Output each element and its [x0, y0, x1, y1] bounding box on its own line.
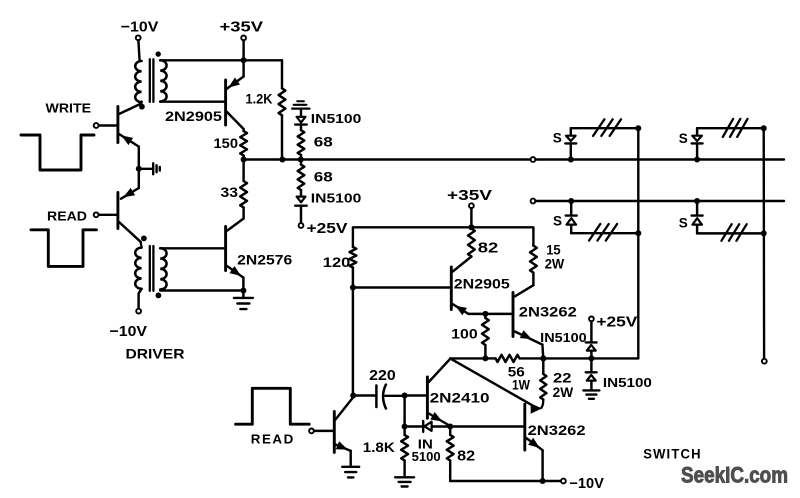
resistor 33 [242, 160, 244, 182]
node Q7 emitter on rail [540, 478, 546, 484]
wire Q7 emitter to -10V rail [541, 450, 543, 481]
transformer T2 polarity dot primary [141, 236, 147, 242]
core winding hash S4 [721, 224, 731, 241]
svg-text:READ: READ [251, 432, 295, 447]
node 120 bottom junction [350, 285, 356, 291]
transistor Q6 base bar [512, 293, 515, 337]
wire node to capacitor [353, 394, 375, 396]
resistor 82 lower [449, 427, 451, 435]
node line1 connector circle [531, 157, 536, 162]
diode S1 [570, 128, 572, 135]
net +35V terminal (top) [241, 36, 246, 41]
svg-text:2W: 2W [545, 257, 565, 272]
transformer T1 polarity dot secondary [156, 51, 161, 56]
transistor Q9 collector [429, 359, 450, 382]
transistor Q6 collector [532, 273, 534, 286]
node bus 2 open terminal [762, 359, 767, 364]
wire switch bus 1 [637, 128, 639, 358]
node junction diodes on node line [588, 355, 594, 361]
wire node line left [450, 357, 495, 359]
wire T2 secondary top to Q4 base [160, 247, 225, 249]
transformer T1 primary winding [135, 61, 141, 102]
wire T1 secondary bottom to Q3 base [160, 100, 225, 102]
svg-text:1.2K: 1.2K [246, 91, 273, 107]
node Q5 emitter junction (100) [482, 311, 488, 317]
wire Q8 emitter to ground [349, 451, 351, 465]
wire T2 secondary bottom to Q4 emitter node [160, 289, 243, 291]
transistor Q1 collector [119, 104, 141, 114]
node main line junction at 68 [298, 157, 304, 163]
svg-text:2N2905: 2N2905 [454, 277, 510, 292]
svg-text:IN5100: IN5100 [540, 330, 587, 345]
ground (chassis, right-facing) at emitter node [139, 168, 152, 170]
svg-text:IN5100: IN5100 [311, 191, 362, 206]
node S4 junction on line2 [694, 198, 700, 204]
svg-text:68: 68 [314, 170, 334, 185]
diode S2 [570, 201, 572, 215]
wire READ input to Q2 base [99, 214, 117, 216]
wire 120 node down to Q8 collector [352, 288, 354, 396]
transistor Q9 emitter [429, 414, 450, 427]
svg-text:2N2410: 2N2410 [430, 391, 490, 406]
transistor Q5 base bar [450, 267, 453, 310]
transistor Q3 emitter from +35V rail [242, 60, 244, 76]
resistor 22 2W [540, 374, 546, 400]
capacitor 220 left plate [375, 386, 378, 408]
diode D4 1N5100 [586, 371, 597, 373]
diode D5 1N5100 (horizontal) [422, 421, 424, 432]
wire +25V to D3 [590, 321, 592, 342]
transistor Q5 emitter [453, 304, 469, 314]
svg-text:+35V: +35V [220, 19, 264, 36]
node main line junction at 150/33 [241, 157, 247, 163]
transformer T1 polarity dot primary [139, 104, 145, 110]
transistor Q8 collector [336, 397, 354, 420]
wire -10V bottom rail [450, 480, 561, 482]
wire switch bus 2 [763, 128, 766, 359]
ground below D4 [583, 389, 599, 391]
transistor Q4 collector [227, 219, 243, 231]
node +25V rail junction at +35V [468, 224, 474, 230]
capacitor 220 right plate [383, 385, 386, 409]
node Q4 emitter junction [240, 288, 246, 294]
wire 120 junction to Q5 base [353, 286, 451, 288]
svg-text:−10V: −10V [121, 19, 159, 36]
svg-text:220: 220 [369, 368, 396, 384]
svg-text:READ: READ [47, 209, 87, 224]
node Q8 collector junction [350, 393, 356, 399]
svg-text:S: S [679, 215, 688, 230]
wire T2 primary bottom to -10V [139, 289, 142, 309]
transistor Q7 collector diagonal from node line [450, 358, 531, 405]
ground below Q8 [342, 466, 359, 468]
wire main output line right segment [535, 158, 784, 160]
svg-text:IN5100: IN5100 [311, 111, 362, 126]
resistor 68 lower [300, 160, 302, 165]
net -10V terminal (bottom left) [136, 309, 141, 314]
svg-text:SeekIC.com: SeekIC.com [681, 463, 788, 488]
node S1 junction on line1 [568, 157, 574, 163]
node bus2 top junction [761, 125, 767, 131]
svg-text:2N2576: 2N2576 [237, 253, 292, 268]
wire capacitor to Q9 base node [385, 395, 404, 397]
svg-text:S: S [553, 213, 562, 228]
node bus2 bottom junction [761, 230, 767, 236]
svg-text:100: 100 [451, 326, 478, 342]
WRITE input pulse waveform [21, 135, 94, 170]
wire cap node down to diode node [403, 396, 405, 427]
wire Q4 emitter to ground node [242, 278, 244, 291]
node WRITE input terminal [94, 123, 99, 128]
wire -10V to transformer T1 primary [138, 40, 139, 61]
svg-text:2N3262: 2N3262 [528, 423, 586, 438]
transistor Q4 base bar [224, 227, 227, 271]
wire 22 bottom hook to Q7 collector [541, 400, 544, 409]
node READ pulse terminal [309, 429, 314, 434]
transformer T1 secondary winding [160, 60, 166, 101]
transformer T2 polarity dot secondary [156, 293, 162, 299]
wire T1 secondary top to +35V rail [160, 59, 282, 61]
svg-text:5100: 5100 [412, 449, 441, 464]
svg-text:IN5100: IN5100 [603, 375, 652, 390]
svg-text:2W: 2W [553, 385, 574, 400]
node junction 22 on node line [540, 355, 546, 361]
wire WRITE input to Q1 base [99, 124, 117, 126]
svg-text:S: S [679, 131, 688, 146]
wire READ terminal to Q8 base [314, 430, 334, 432]
core winding hash S2 [589, 224, 600, 241]
resistor 1.2K [281, 60, 283, 88]
svg-text:1.8K: 1.8K [363, 440, 395, 455]
wire line2 [535, 200, 784, 202]
svg-text:+25V: +25V [596, 314, 637, 330]
svg-text:S: S [553, 130, 562, 145]
node diode anode junction [402, 424, 408, 430]
transistor Q3 base bar [224, 80, 227, 125]
transistor Q7 base bar [523, 404, 526, 450]
transistor Q4 emitter [227, 266, 243, 278]
transformer T1 core [149, 59, 151, 102]
wire +35V to rail [470, 208, 472, 227]
core winding hash S1 [593, 119, 604, 136]
transistor Q9 base bar [426, 377, 429, 418]
svg-text:82: 82 [457, 449, 475, 465]
resistor 68 upper [298, 130, 305, 155]
transistor Q2 base bar [116, 193, 119, 229]
svg-text:−10V: −10V [110, 323, 148, 340]
READ pulse waveform (bottom) [236, 388, 310, 424]
node S3 junction on line1 [694, 157, 700, 163]
resistor 56 1W [496, 355, 520, 362]
transformer T2 core [149, 246, 151, 291]
wire main output line left segment [244, 158, 531, 160]
svg-text:68: 68 [314, 134, 334, 149]
node +35V rail junction [241, 57, 247, 63]
transistor Q3 collector [227, 112, 244, 129]
wire S4 bottom to bus2 [697, 232, 764, 234]
wire node line right [520, 357, 639, 359]
resistor 100 [484, 314, 486, 318]
wire +25V rail [353, 227, 534, 247]
ground below 1.8K [395, 476, 414, 478]
wire Q1 emitter down to common node [138, 147, 140, 169]
wire S2 bottom to bus1 [571, 232, 638, 234]
diode D1 1N5100 (upper) [297, 117, 306, 123]
node capacitor output junction [402, 393, 408, 399]
resistor 150 (Q3 collector) [242, 129, 244, 131]
node bus1 top junction [635, 125, 641, 131]
termination bars above 1N5100 [297, 100, 304, 102]
net -10V terminal (bottom right) [561, 479, 566, 484]
wire S3 top to bus2 [697, 127, 764, 129]
svg-text:+35V: +35V [447, 188, 492, 204]
svg-text:82: 82 [478, 240, 499, 256]
svg-text:33: 33 [221, 185, 239, 200]
wire cap node to 2N2410 base [405, 394, 427, 396]
resistor 15 2W [532, 244, 534, 246]
transistor Q1 emitter [119, 134, 139, 147]
wire base line to Q7 [432, 425, 524, 427]
svg-text:WRITE: WRITE [46, 101, 92, 116]
diode D2 1N5100 (lower) [300, 190, 302, 196]
diode S3 [696, 128, 698, 135]
node Q9 emitter junction [447, 424, 453, 430]
diode S4 [696, 201, 698, 215]
node main line junction at 1.2K [279, 157, 285, 163]
wire top bar to D1 [300, 110, 302, 116]
svg-text:−10V: −10V [569, 476, 604, 492]
transistor Q8 emitter [336, 445, 351, 451]
ground below Q4 [242, 291, 244, 298]
net +25V terminal (left) [299, 223, 304, 228]
core winding hash S3 [723, 119, 733, 137]
node bus1 bottom junction [635, 230, 641, 236]
svg-text:2N3262: 2N3262 [519, 305, 577, 320]
READ input pulse waveform [31, 230, 97, 267]
svg-text:1W: 1W [512, 377, 531, 393]
node READ input terminal [94, 212, 99, 217]
net +25V terminal (right) [589, 317, 594, 322]
resistor 120 [350, 247, 357, 268]
svg-text:DRIVER: DRIVER [126, 346, 185, 362]
transformer T2 secondary winding [160, 248, 166, 289]
wire emitter node down to Q2 emitter [138, 169, 140, 188]
transistor Q1 base bar [116, 107, 119, 143]
net -10V terminal (top left) [136, 35, 141, 40]
node Q1-Q2 emitter junction [136, 166, 142, 172]
svg-text:2N2905: 2N2905 [165, 109, 222, 124]
svg-text:SWITCH: SWITCH [643, 446, 702, 461]
transistor Q8 base bar [333, 411, 336, 452]
transistor Q2 emitter [121, 188, 139, 199]
resistor 1.8K [403, 427, 405, 435]
node junction 100 on node line [482, 355, 488, 361]
resistor 82 (Q5 collector) [468, 229, 475, 257]
wire S1 top to bus1 [571, 127, 639, 129]
svg-text:22: 22 [553, 371, 572, 386]
diode D3 1N5100 [586, 341, 597, 343]
svg-text:120: 120 [323, 254, 351, 270]
svg-text:150: 150 [214, 136, 239, 151]
node line2 connector circle [531, 199, 536, 204]
wire +35V down to rail [242, 40, 244, 60]
svg-text:+25V: +25V [307, 221, 348, 237]
wire diode node left segment [405, 425, 423, 427]
transistor Q2 collector [119, 222, 141, 242]
node S2 junction on line2 [568, 198, 574, 204]
transformer T2 primary winding [135, 248, 141, 289]
svg-text:15: 15 [546, 242, 561, 257]
transistor Q6 emitter [515, 332, 543, 345]
wire node to D4 [590, 358, 592, 372]
transistor Q7 emitter [526, 438, 542, 450]
